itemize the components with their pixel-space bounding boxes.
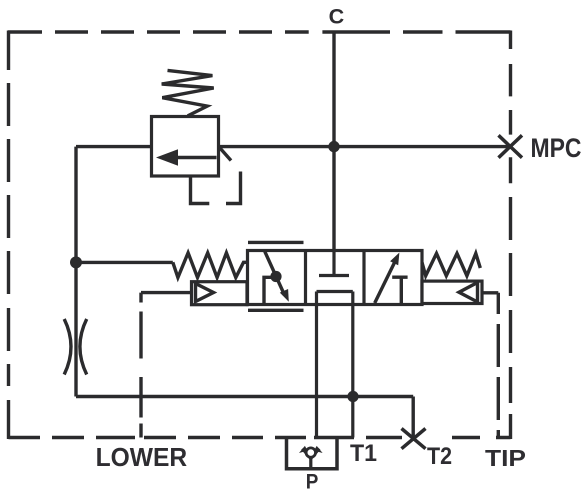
svg-text:T2: T2 <box>427 443 452 470</box>
relief valve RV1 pilot tap diagonal <box>220 148 232 161</box>
proportional bars left box <box>248 242 304 310</box>
check valve ball <box>306 448 315 457</box>
orifice restrictor <box>64 319 87 375</box>
junction dot at C/MPC <box>328 141 339 152</box>
relief valve RV1 internal arrow <box>176 156 217 159</box>
spring right of valve <box>422 253 480 275</box>
check valve seat <box>303 449 320 459</box>
wire left pilot line horizontal <box>141 291 192 294</box>
spring left of valve <box>173 253 248 278</box>
enclosure dashed border right <box>509 31 512 440</box>
wire spring branch <box>76 261 173 264</box>
valve V1 left position symbol <box>265 252 285 296</box>
wire left riser <box>74 147 77 397</box>
valve V1 right position symbol <box>375 259 397 304</box>
pilot actuator left <box>192 282 248 305</box>
junction dot left riser <box>70 256 82 268</box>
enclosure dashed border top <box>8 30 511 33</box>
pilot actuator right <box>422 281 482 303</box>
port MPC X mark <box>499 135 523 157</box>
enclosure dashed border bottom <box>9 436 511 439</box>
wire bottom horizontal <box>76 395 413 398</box>
relief valve RV1 body <box>152 117 219 177</box>
wire right pilot line dashed vertical <box>497 293 500 438</box>
junction dot channel <box>347 391 358 402</box>
wire MPC line <box>218 145 511 148</box>
svg-text:T1: T1 <box>350 440 377 467</box>
node C port line <box>332 32 335 251</box>
svg-text:LOWER: LOWER <box>96 442 188 472</box>
svg-text:TIP: TIP <box>485 445 526 471</box>
wire T2 drop <box>412 397 415 438</box>
valve V1 body 3 boxes <box>248 251 423 305</box>
svg-text:P: P <box>306 471 319 494</box>
enclosure dashed border left <box>7 31 10 440</box>
wire left pilot line dashed vertical <box>139 293 142 438</box>
relief valve RV1 drain dashed line <box>191 172 241 204</box>
wire right pilot line horizontal <box>482 291 498 294</box>
svg-text:C: C <box>329 6 345 29</box>
P port box <box>287 438 338 469</box>
valve V1 center position blocked port <box>319 251 349 276</box>
port T2 X mark <box>402 429 426 449</box>
check valve stem <box>309 457 312 468</box>
P channel rectangle <box>317 292 353 438</box>
wire relief valve left port <box>76 145 152 148</box>
relief valve RV1 spring <box>162 70 214 116</box>
svg-text:MPC: MPC <box>531 133 582 163</box>
